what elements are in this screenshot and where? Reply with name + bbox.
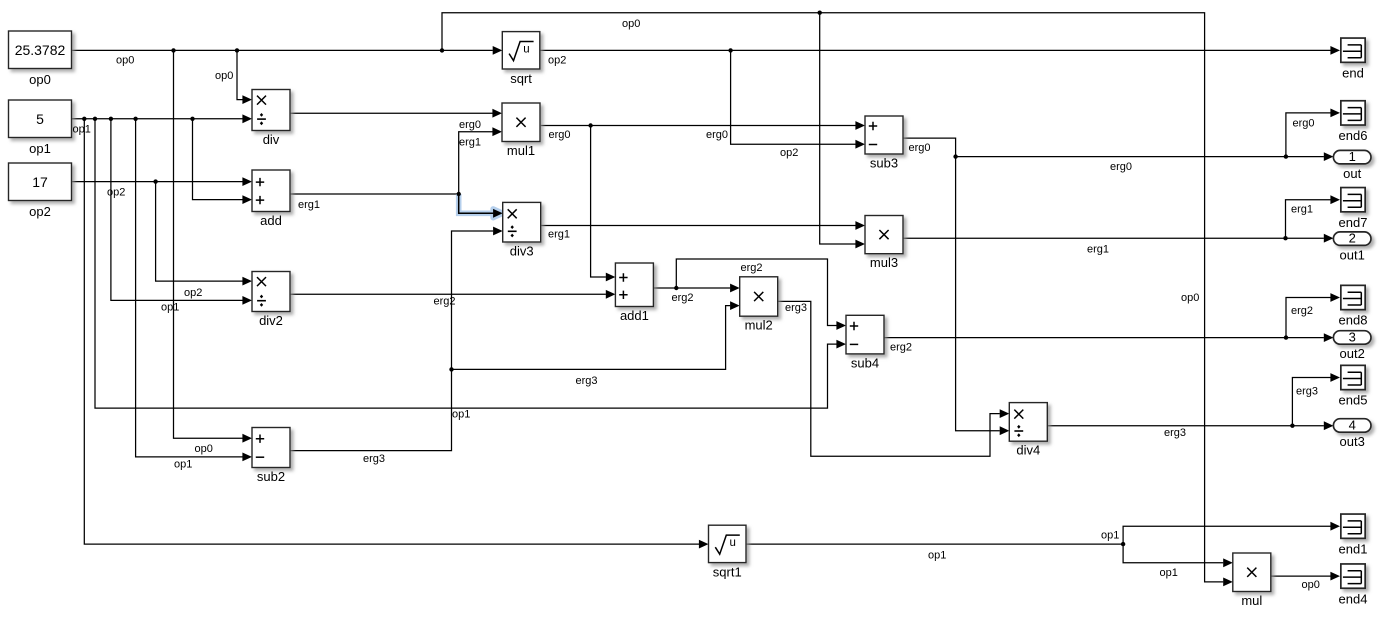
svg-text:mul2: mul2: [745, 318, 773, 333]
sink block end4: [1339, 564, 1368, 606]
signal label erg0: [706, 129, 728, 141]
constant block op2 value 17: [9, 163, 72, 219]
svg-text:4: 4: [1349, 418, 1356, 433]
signal label erg0: [1293, 118, 1315, 130]
wire erg1 from mul3 output to out1 port 2: [902, 234, 1333, 243]
sink block end7: [1339, 188, 1368, 230]
wire erg1 from div3 output to mul3 first input: [541, 221, 865, 230]
wire op2 branch down to div2 numerator input: [156, 182, 252, 286]
signal label op1: [1101, 530, 1119, 542]
output port block out3 number 4: [1333, 418, 1371, 450]
wire erg3 from mul2 output routed to div4 numerator input: [777, 301, 1009, 456]
signal label op0: [215, 70, 233, 82]
svg-text:mul3: mul3: [870, 255, 898, 270]
svg-text:17: 17: [32, 174, 48, 190]
svg-text:op2: op2: [29, 204, 51, 219]
svg-text:op1: op1: [174, 459, 192, 471]
svg-text:mul1: mul1: [507, 143, 535, 158]
svg-text:op1: op1: [1101, 530, 1119, 542]
junction erg2 at end8 branch: [1284, 335, 1288, 339]
svg-text:erg3: erg3: [1296, 386, 1318, 398]
svg-text:erg0: erg0: [909, 142, 931, 154]
signal label op1: [928, 550, 946, 562]
svg-text:end6: end6: [1339, 128, 1368, 143]
svg-text:erg3: erg3: [576, 375, 598, 387]
signal label erg1: [548, 229, 570, 241]
operator block mul (mul): [1233, 553, 1271, 608]
operator block add1 (add): [615, 263, 653, 323]
svg-text:erg3: erg3: [785, 302, 807, 314]
signal label op2: [107, 187, 125, 199]
wire erg1 highlighted branch to div3 numerator input (selected, blue halo): [459, 194, 503, 218]
junction op1 at sub4 branch: [93, 117, 97, 121]
svg-text:sub4: sub4: [851, 355, 879, 370]
svg-text:sub3: sub3: [870, 156, 898, 171]
svg-text:erg1: erg1: [1291, 204, 1313, 216]
svg-text:op0: op0: [195, 443, 213, 455]
svg-text:op0: op0: [1181, 292, 1199, 304]
svg-text:sqrt1: sqrt1: [713, 564, 742, 579]
signal label erg0: [1110, 161, 1132, 173]
signal label op1: [161, 302, 179, 314]
wire erg3 branch up to end5: [1292, 373, 1340, 426]
junction op1 at sub2 branch: [133, 117, 137, 121]
junction op1 at div2 branch: [109, 117, 113, 121]
operator block mul2 (mul): [740, 277, 778, 333]
operator block sub4 (sub): [846, 315, 884, 370]
operator block mul1 (mul): [502, 103, 540, 158]
signal label erg1: [1087, 244, 1109, 256]
svg-text:erg2: erg2: [741, 262, 763, 274]
wire erg2 from div2 output to add1 second input: [290, 290, 615, 299]
svg-text:op0: op0: [622, 18, 640, 30]
signal label op1: [1160, 567, 1178, 579]
signal label erg3: [363, 453, 385, 465]
wire op2 branch down to sub3 minus input: [731, 50, 865, 148]
operator block div2 (div): [252, 272, 290, 329]
signal label erg2: [1291, 305, 1313, 317]
signal label erg0: [459, 119, 481, 131]
wire erg2 branch up to end8: [1286, 293, 1340, 338]
signal label op2: [184, 287, 202, 299]
operator block div (div): [252, 90, 290, 148]
svg-text:5: 5: [36, 111, 44, 127]
wire op1 branch down to sqrt1 input: [84, 119, 708, 549]
signal label op0: [195, 443, 213, 455]
svg-text:out2: out2: [1340, 346, 1365, 361]
signal label erg3: [785, 302, 807, 314]
sink block end8: [1339, 285, 1368, 327]
svg-text:end7: end7: [1339, 215, 1368, 230]
junction op0 at sub2 branch: [171, 48, 175, 52]
operator block add (add): [252, 170, 290, 228]
wire erg3 branch from junction to mul2 second input: [452, 301, 740, 369]
svg-text:erg0: erg0: [549, 129, 571, 141]
svg-text:op1: op1: [73, 124, 91, 136]
wire erg1 branch up to mul1 second input: [459, 127, 502, 194]
wire erg0 branch down to add1 first input: [591, 126, 616, 282]
signal label erg1: [1291, 204, 1313, 216]
signal label op1: [174, 459, 192, 471]
svg-text:op2: op2: [107, 187, 125, 199]
junction erg1 at end7 branch: [1283, 236, 1287, 240]
svg-text:op1: op1: [29, 141, 51, 156]
sink block end1: [1339, 514, 1368, 556]
svg-text:erg3: erg3: [363, 453, 385, 465]
output port block out1 number 2: [1333, 231, 1371, 263]
signal label erg3: [576, 375, 598, 387]
junction erg3 at end5 branch: [1290, 424, 1294, 428]
svg-text:1: 1: [1349, 149, 1356, 164]
svg-text:op2: op2: [184, 287, 202, 299]
junction op0 top rail at mul3 branch: [818, 11, 822, 15]
operator block div4 (div): [1009, 403, 1047, 458]
svg-text:end5: end5: [1339, 393, 1368, 408]
svg-text:erg1: erg1: [298, 199, 320, 211]
wire op2 from sqrt output to end input: [540, 46, 1340, 55]
svg-text:op1: op1: [161, 302, 179, 314]
svg-text:erg0: erg0: [1110, 161, 1132, 173]
svg-text:sub2: sub2: [257, 469, 285, 484]
junction op1 at sqrt1 branch: [82, 117, 86, 121]
svg-text:div3: div3: [510, 244, 534, 259]
svg-text:op1: op1: [452, 409, 470, 421]
junction op0 at div branch: [235, 48, 239, 52]
svg-text:erg1: erg1: [548, 229, 570, 241]
svg-text:sqrt: sqrt: [510, 71, 532, 86]
junction op1 at end1/mul branch: [1121, 542, 1125, 546]
svg-text:add: add: [260, 213, 282, 228]
output port block out2 number 3: [1333, 330, 1371, 362]
wire erg3 from sub2 output up to div3 denominator input: [290, 227, 503, 451]
signal label op2: [780, 147, 798, 159]
output port block out number 1: [1333, 149, 1371, 181]
wire erg1 from add output to junction: [290, 193, 459, 195]
wire op2 rail from constant op2 to add first input: [72, 177, 253, 186]
signal label erg1: [298, 199, 320, 211]
svg-text:u: u: [729, 537, 735, 549]
svg-text:erg0: erg0: [1293, 118, 1315, 130]
svg-text:erg3: erg3: [1164, 427, 1186, 439]
wire op0 top rail across to mul second input: [442, 13, 1233, 587]
junction erg0 at out branch: [953, 154, 957, 158]
junction op0 at top-rail branch: [440, 48, 444, 52]
wire op1 rail from constant op1 to div denominator input: [72, 114, 253, 123]
svg-text:erg0: erg0: [459, 119, 481, 131]
wire op1 from sqrt1 output to junction: [746, 543, 1123, 545]
signal label op0: [116, 55, 134, 67]
signal label op2: [548, 55, 566, 67]
signal label erg1: [459, 137, 481, 149]
constant block op1 value 5: [9, 100, 72, 156]
wire op1 branch down to sub2 minus input: [136, 119, 252, 462]
signal label erg3: [1164, 427, 1186, 439]
svg-text:erg1: erg1: [459, 137, 481, 149]
operator block mul3 (mul): [865, 216, 903, 271]
svg-text:div4: div4: [1016, 443, 1040, 458]
svg-text:div2: div2: [259, 313, 283, 328]
wire op1 branch down and across to sub4 minus input: [95, 119, 846, 408]
wire erg0 from mul1 output to sub3 plus input: [541, 121, 865, 130]
wire erg2 from add1 output to mul2 first input: [652, 284, 740, 293]
sqrt block sqrt1: [709, 525, 747, 579]
svg-text:erg2: erg2: [890, 342, 912, 354]
signal label erg3: [1296, 386, 1318, 398]
svg-text:out1: out1: [1340, 247, 1365, 262]
svg-text:op2: op2: [780, 147, 798, 159]
svg-text:erg2: erg2: [434, 296, 456, 308]
signal label op0: [1302, 579, 1320, 591]
svg-text:end: end: [1342, 65, 1364, 80]
svg-text:2: 2: [1349, 231, 1356, 246]
junction erg1 at mul1/div3 branch: [457, 192, 461, 196]
wire op1 branch down to add second input: [193, 119, 253, 204]
wire op0 from mul output to end4: [1271, 572, 1340, 581]
svg-text:op2: op2: [548, 55, 566, 67]
wire erg2 branch up and over to sub4 plus input: [676, 259, 846, 330]
wire erg1 branch up to end7: [1286, 195, 1341, 238]
junction erg2 at sub4 branch: [674, 286, 678, 290]
junction op2 at div2 branch: [153, 179, 157, 183]
svg-text:erg2: erg2: [672, 292, 694, 304]
wire erg2 from sub4 output to out2 port 3: [884, 333, 1333, 342]
svg-text:end4: end4: [1339, 591, 1368, 606]
sink block end5: [1339, 365, 1368, 407]
signal label erg2: [890, 342, 912, 354]
wire op1 branch down to mul first input: [1123, 544, 1233, 567]
signal label erg2: [741, 262, 763, 274]
svg-text:op0: op0: [29, 72, 51, 87]
wire op0 branch down to div numerator input: [237, 50, 252, 104]
wire op1 branch down to div2 denominator input: [111, 119, 252, 305]
wire erg0 from sub3 output down to div4 denominator input: [902, 138, 1009, 435]
svg-text:add1: add1: [620, 308, 649, 323]
svg-text:erg2: erg2: [1291, 305, 1313, 317]
svg-text:erg0: erg0: [706, 129, 728, 141]
svg-text:op1: op1: [928, 550, 946, 562]
svg-text:out: out: [1343, 166, 1361, 181]
svg-text:div: div: [263, 132, 280, 147]
signal label op1: [452, 409, 470, 421]
signal label op1: [73, 124, 91, 136]
svg-text:op1: op1: [1160, 567, 1178, 579]
wire op0 rail from constant op0 to sqrt input: [72, 46, 503, 55]
sink block end: [1341, 38, 1365, 80]
operator block sub2 (sub): [252, 428, 290, 485]
svg-text:3: 3: [1349, 330, 1356, 345]
junction op1 at add branch: [190, 117, 194, 121]
junction erg0 at end6 branch: [1284, 154, 1288, 158]
svg-text:end1: end1: [1339, 541, 1368, 556]
junction erg3 at mul2 branch: [449, 367, 453, 371]
operator block sub3 (sub): [865, 116, 903, 171]
signal label op0: [622, 18, 640, 30]
constant block op0 value 25.3782: [9, 31, 72, 87]
svg-text:25.3782: 25.3782: [15, 42, 66, 58]
svg-text:op0: op0: [215, 70, 233, 82]
operator block div3 (div): [503, 202, 541, 258]
signal label erg0: [909, 142, 931, 154]
junction op2 at sub3 branch: [728, 48, 732, 52]
wire erg0 from div output to mul1 first input: [290, 109, 502, 118]
svg-text:u: u: [523, 44, 529, 56]
svg-text:mul: mul: [1241, 593, 1262, 608]
sink block end6: [1339, 101, 1368, 143]
svg-text:op0: op0: [116, 55, 134, 67]
wire op1 branch up to end1: [1123, 522, 1340, 544]
signal label erg0: [549, 129, 571, 141]
signal label op0: [1181, 292, 1199, 304]
svg-text:op0: op0: [1302, 579, 1320, 591]
sqrt block sqrt: [502, 32, 540, 86]
signal label erg2: [672, 292, 694, 304]
svg-text:out3: out3: [1340, 434, 1365, 449]
svg-text:end8: end8: [1339, 313, 1368, 328]
wire op0 branch down to mul3 second input: [820, 13, 865, 249]
junction erg0 at add1 branch: [588, 123, 592, 127]
wire erg3 from div4 output to out3 port 4: [1046, 421, 1334, 430]
wire erg0 branch up to end6: [1286, 109, 1340, 157]
svg-text:erg1: erg1: [1087, 244, 1109, 256]
wire op0 branch down to sub2 plus input: [174, 50, 253, 442]
signal label erg2: [434, 296, 456, 308]
wire erg0 branch to out port 1: [956, 152, 1334, 161]
